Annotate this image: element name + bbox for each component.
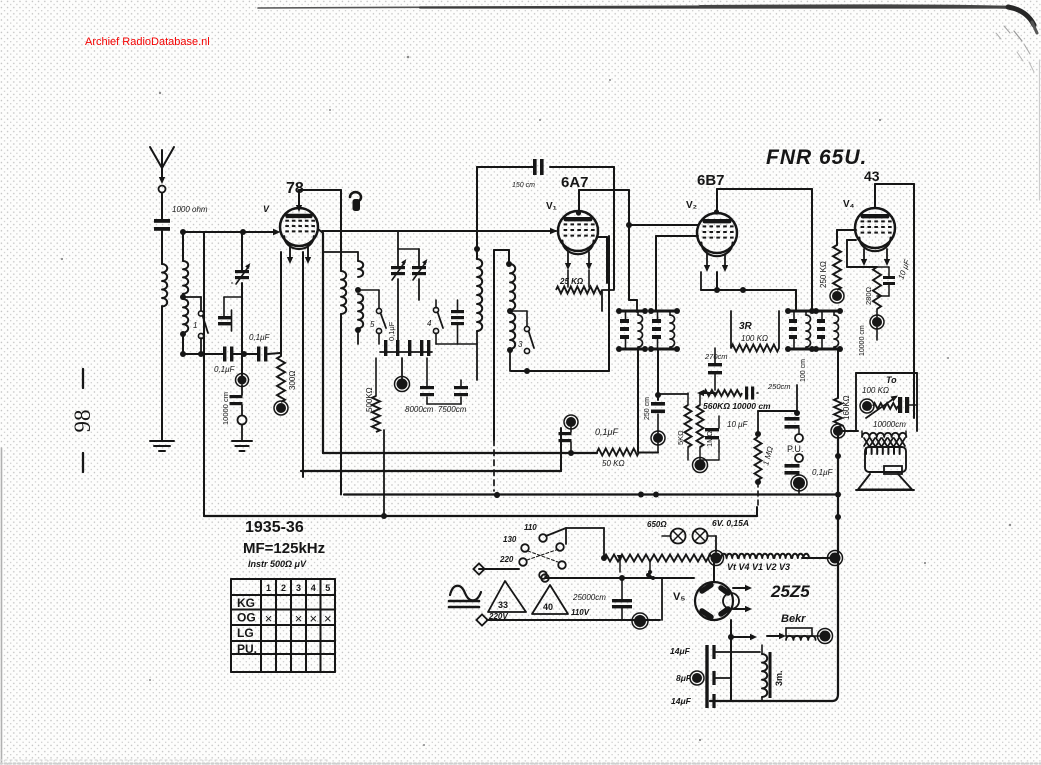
svg-text:50 KΩ: 50 KΩ <box>602 459 625 468</box>
svg-text:5: 5 <box>370 320 375 329</box>
svg-text:Vt V4 V1 V2 V3: Vt V4 V1 V2 V3 <box>727 562 790 572</box>
svg-text:300Ω: 300Ω <box>288 371 297 390</box>
svg-text:Instr 500Ω μV: Instr 500Ω μV <box>248 559 307 569</box>
svg-text:2: 2 <box>281 583 286 593</box>
svg-text:6V. 0,15A: 6V. 0,15A <box>712 518 749 528</box>
svg-text:33: 33 <box>498 600 508 610</box>
svg-text:V₄: V₄ <box>843 199 855 210</box>
svg-text:LG: LG <box>237 626 254 640</box>
svg-text:100 KΩ: 100 KΩ <box>741 334 768 343</box>
svg-text:280Ω: 280Ω <box>864 286 873 305</box>
svg-text:500KΩ: 500KΩ <box>365 387 374 412</box>
svg-text:×: × <box>324 611 332 626</box>
svg-text:100 cm: 100 cm <box>800 359 807 382</box>
svg-text:10000 cm: 10000 cm <box>859 325 866 356</box>
svg-text:220: 220 <box>499 555 514 564</box>
svg-text:V₂: V₂ <box>686 200 697 211</box>
svg-text:110: 110 <box>524 523 537 532</box>
svg-text:4: 4 <box>311 583 316 593</box>
svg-text:3: 3 <box>518 340 523 349</box>
svg-text:250cm: 250cm <box>767 382 791 391</box>
svg-text:150 cm: 150 cm <box>512 182 535 189</box>
svg-text:0,1μF: 0,1μF <box>387 321 396 341</box>
svg-text:5KΩ: 5KΩ <box>676 430 685 445</box>
svg-text:1935-36: 1935-36 <box>245 519 304 536</box>
svg-text:100 KΩ: 100 KΩ <box>862 386 889 395</box>
svg-text:650Ω: 650Ω <box>647 520 667 529</box>
svg-text:3: 3 <box>296 583 301 593</box>
svg-text:14μF: 14μF <box>670 646 691 656</box>
svg-text:KG: KG <box>237 596 255 610</box>
svg-text:250 cm: 250 cm <box>644 397 651 420</box>
svg-text:98: 98 <box>70 410 95 433</box>
svg-text:×: × <box>309 611 317 626</box>
svg-text:6B7: 6B7 <box>697 172 725 189</box>
svg-text:250 KΩ: 250 KΩ <box>819 261 828 288</box>
svg-text:V₅: V₅ <box>673 591 685 603</box>
svg-text:MF=125kHz: MF=125kHz <box>243 540 325 557</box>
svg-text:3R: 3R <box>739 321 753 332</box>
svg-text:P.U.: P.U. <box>787 444 803 454</box>
svg-text:×: × <box>295 611 303 626</box>
svg-text:130: 130 <box>503 535 517 544</box>
svg-text:3m.: 3m. <box>774 670 784 686</box>
svg-text:160KΩ: 160KΩ <box>842 395 851 420</box>
svg-text:To: To <box>886 375 897 385</box>
svg-text:560KΩ 10000 cm: 560KΩ 10000 cm <box>703 401 771 411</box>
svg-text:Archief RadioDatabase.nl: Archief RadioDatabase.nl <box>85 36 210 48</box>
svg-text:1000 ohm: 1000 ohm <box>172 205 208 214</box>
svg-text:10 μF: 10 μF <box>727 420 749 429</box>
svg-text:25000cm: 25000cm <box>572 593 606 602</box>
svg-text:Bekr: Bekr <box>781 613 806 625</box>
svg-text:43: 43 <box>864 168 880 184</box>
svg-text:14μF: 14μF <box>671 696 692 706</box>
svg-text:78: 78 <box>286 180 304 197</box>
svg-text:25Z5: 25Z5 <box>770 582 810 601</box>
svg-text:10000cm: 10000cm <box>873 420 906 429</box>
svg-text:V: V <box>263 204 270 214</box>
svg-text:4: 4 <box>427 319 432 328</box>
svg-text:110V: 110V <box>571 608 590 617</box>
svg-text:0,1μF: 0,1μF <box>214 365 236 374</box>
svg-text:FNR 65U.: FNR 65U. <box>766 146 867 169</box>
svg-text:OG: OG <box>237 611 256 625</box>
svg-text:25 KΩ: 25 KΩ <box>559 277 584 286</box>
svg-text:PU.: PU. <box>237 642 257 656</box>
svg-text:0,1μF: 0,1μF <box>595 427 618 437</box>
svg-text:10000 cm: 10000 cm <box>221 392 230 425</box>
svg-text:0,1μF: 0,1μF <box>249 333 271 342</box>
svg-text:0,1μF: 0,1μF <box>812 468 834 477</box>
svg-text:1: 1 <box>193 321 197 330</box>
svg-text:40: 40 <box>543 602 553 612</box>
svg-text:V₁: V₁ <box>546 201 557 212</box>
svg-text:6A7: 6A7 <box>561 174 589 191</box>
svg-text:×: × <box>265 611 273 626</box>
svg-text:1: 1 <box>266 583 271 593</box>
svg-text:8000cm 7500cm: 8000cm 7500cm <box>405 405 467 414</box>
svg-text:5: 5 <box>325 583 330 593</box>
